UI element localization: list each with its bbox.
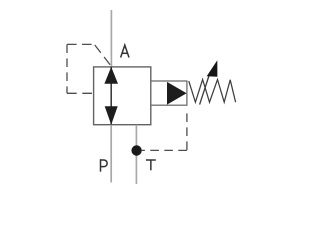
wire port A line	[110, 10, 112, 67]
pilot line dashed bottom horizontal into valve left side	[67, 92, 94, 94]
flow arrow down (bottom triangle)	[105, 106, 118, 125]
spring (zigzag)	[189, 80, 236, 103]
wire port T line	[135, 125, 137, 184]
pilot pressure triangle (solid, pointing right)	[167, 82, 187, 105]
adjustment arrow shaft	[200, 72, 211, 105]
adjustment arrow head	[207, 60, 218, 77]
drain dashed vertical (right)	[186, 108, 188, 150]
node A label	[121, 45, 129, 57]
pilot actuator box on right side	[151, 81, 187, 105]
pilot line dashed vertical (left)	[66, 44, 68, 93]
flow arrow up (top triangle)	[104, 67, 118, 84]
pilot line dashed top horizontal	[67, 43, 95, 45]
valve body square	[94, 67, 151, 125]
wire port P line	[110, 125, 112, 183]
junction node dot on T line	[131, 145, 141, 155]
node T label	[146, 160, 156, 170]
flow path shaft inside valve	[110, 67, 112, 125]
drain dashed horizontal to T node	[142, 149, 187, 151]
node P label	[101, 159, 108, 172]
pilot line dashed diagonal to node A	[95, 45, 112, 67]
